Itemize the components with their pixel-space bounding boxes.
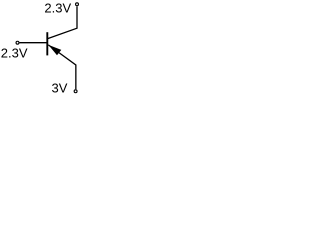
svg-text:3V: 3V [52, 80, 68, 95]
svg-text:2.3V: 2.3V [44, 0, 71, 15]
svg-text:2.3V: 2.3V [1, 45, 28, 60]
